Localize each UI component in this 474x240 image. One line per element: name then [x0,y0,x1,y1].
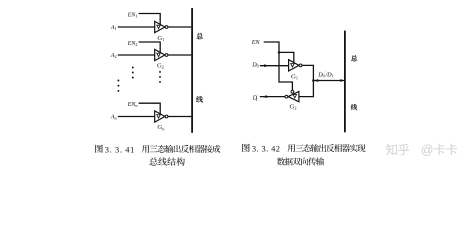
bidirectional wire D0p/D1 to bus [313,80,345,82]
label 线 (left bus) [196,96,203,102]
wire G1 output down to G2 input [299,65,314,96]
caption figure 3.3.42 line 2 [277,157,324,165]
wire EN branch to G1 enable [279,52,294,62]
tri-state inverter Gn [155,111,168,122]
ellipsis dots column 2 [132,67,134,79]
wire G2 output to D1p label [260,96,285,98]
wire EN2 to G2 enable [139,42,161,53]
junction dot EN branch [278,51,281,54]
tri-state inverter G2 [155,49,168,60]
arrowhead left on bidirectional wire [314,79,319,82]
caption figure 3.3.41 line 1 [95,145,220,155]
svg-text:3. 3. 42: 3. 3. 42 [252,145,281,154]
svg-text:3. 3. 41: 3. 3. 41 [105,145,135,154]
wire G1 output to bus [168,26,192,28]
wire D0 input to G1 [260,65,289,67]
arrowhead on D1p wire [262,95,267,98]
svg-text:D0′/D1: D0′/D1 [317,70,333,78]
wire G2 output to bus [168,54,192,56]
tri-state inverter G1 (right figure) [289,60,302,71]
wire ENn to Gn enable [139,103,161,114]
wire A1 input to G1 [118,26,155,28]
arrowhead on D0 wire [264,64,269,67]
wire An input to Gn [118,116,155,118]
label 线 (right bus) [351,104,357,110]
wire EN1 to G1 enable [139,14,161,25]
ellipsis dots column 1 [117,80,119,92]
wire EN with branches to G1 and G2 enables [264,42,293,90]
svg-text:@: @ [421,143,434,157]
tri-state inverter G2 (right figure, facing left) [285,90,299,102]
wire A2 input to G2 [118,54,155,56]
caption figure 3.3.42 line 1 [242,144,365,154]
bus line (right figure) [344,31,346,133]
junction dot on bidirectional wire [312,79,315,82]
bus line (left figure) [191,8,193,133]
wire Gn output to bus [168,116,192,118]
svg-text:EN: EN [251,39,261,46]
caption figure 3.3.41 line 2 [149,157,184,165]
watermark zhihu [386,143,457,157]
arrowhead right on bidirectional wire [340,79,345,82]
ellipsis dots column 3 [159,71,161,83]
label 总 (left bus) [197,33,203,39]
label 总 (right bus) [351,55,357,61]
tri-state inverter G1 [155,21,168,32]
svg-text:D′1: D′1 [252,94,259,102]
